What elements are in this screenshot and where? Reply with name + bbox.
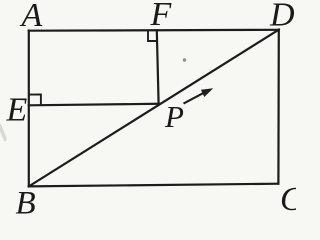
svg-text:D: D [269, 0, 295, 34]
svg-text:E: E [6, 92, 28, 129]
wire: diagonal BD [29, 30, 279, 187]
wire: side BC (bottom edge) [29, 184, 279, 187]
right-angle mark at F [148, 30, 158, 41]
arrow near P pointing toward D [184, 88, 214, 103]
right-angle mark at E [29, 95, 41, 106]
wire: side AB (left edge) [28, 31, 30, 187]
svg-text:F: F [150, 0, 173, 33]
svg-text:C: C [280, 181, 296, 217]
wire: side DC (right edge) [277, 30, 280, 184]
svg-text:A: A [20, 0, 43, 34]
wire: segment FP [157, 30, 159, 104]
wire: side AD (top edge) [29, 29, 279, 32]
svg-text:B: B [16, 186, 36, 218]
svg-text:P: P [164, 99, 184, 134]
faint scan streak [0, 124, 6, 141]
wire: segment EP [29, 104, 159, 106]
noise speck [183, 58, 186, 61]
